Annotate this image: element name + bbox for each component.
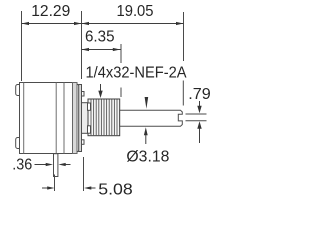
dimension .79 extension line top — [186, 113, 207, 115]
arrow diameter bottom — [144, 127, 148, 135]
svg-text:12.29: 12.29 — [31, 3, 70, 20]
svg-text:.36: .36 — [12, 157, 32, 174]
bushing thread hatch — [91, 100, 117, 136]
plate connector bottom — [77, 151, 79, 152]
arrowhead 19.05 left — [82, 22, 90, 25]
dimension line 12.29 / 19.05 — [22, 23, 184, 25]
body seam line left — [23, 83, 25, 154]
extension line body face (shared 12.29/19.05/6.35) — [81, 11, 83, 79]
face step tab top — [82, 92, 85, 97]
body seam line mid2 — [63, 83, 65, 154]
body — [20, 83, 75, 154]
collar — [82, 103, 89, 134]
extension line bushing end (6.35 right) lower segment — [120, 88, 122, 98]
svg-text:5.08: 5.08 — [98, 182, 133, 199]
dimension .36 right arrow — [65, 164, 71, 166]
extension line face (5.08 right) — [83, 157, 85, 191]
face step tab bottom — [82, 140, 85, 145]
extension line bushing end (6.35 right) upper segment — [120, 44, 122, 63]
left tab upper — [16, 85, 22, 96]
bushing left shoulder tab top — [88, 103, 91, 110]
bushing — [88, 99, 120, 136]
body seam line mid1 — [55, 83, 57, 154]
left tab lower — [16, 138, 22, 149]
arrow .79 top — [199, 101, 201, 107]
svg-text:.79: .79 — [188, 86, 211, 103]
arrowhead 6.35 right — [113, 48, 121, 51]
extension line pin (5.08 left) — [54, 175, 56, 192]
arrow diameter top — [145, 97, 149, 109]
svg-text:19.05: 19.05 — [117, 3, 154, 20]
leader arrow thread — [100, 84, 102, 92]
svg-text:1/4x32-NEF-2A: 1/4x32-NEF-2A — [86, 65, 187, 82]
front plate — [79, 85, 82, 152]
extension line shaft end lower segment — [182, 81, 184, 106]
svg-text:6.35: 6.35 — [85, 29, 115, 46]
bushing left shoulder tab bottom — [88, 126, 91, 133]
body rim strip — [73, 83, 78, 154]
extension line left of body (12.29 left) — [21, 11, 23, 81]
arrow .79 bottom — [199, 128, 201, 143]
dimension .36 left arrow — [35, 164, 47, 166]
dimension .79 extension line bottom — [186, 120, 207, 122]
extension line shaft end (19.05 right) — [183, 12, 185, 61]
dimension line 6.35 — [82, 49, 122, 51]
dimension 5.08 left arrow — [42, 187, 48, 189]
arrowhead 12.29 right — [74, 22, 82, 25]
shaft with slot — [120, 110, 183, 126]
arrowhead 19.05 right — [176, 22, 184, 25]
svg-text:Ø3.18: Ø3.18 — [126, 149, 169, 166]
dimension 5.08 right arrow — [91, 187, 96, 189]
plate connector top — [77, 84, 79, 85]
terminal pin — [54, 154, 58, 177]
arrowhead 6.35 left — [82, 48, 90, 51]
arrowhead 12.29 left — [22, 22, 30, 25]
